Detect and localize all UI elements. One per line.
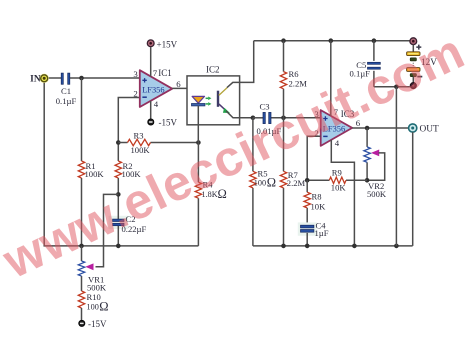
op-amp U IC1 body <box>140 70 172 107</box>
svg-text:Ω: Ω <box>267 176 276 190</box>
svg-text:+15V: +15V <box>157 39 178 49</box>
node rail pin4 <box>352 244 357 249</box>
wire IC1 pin 7 to +15V <box>150 47 152 76</box>
svg-text:-15V: -15V <box>88 319 107 329</box>
potentiometer VR1 500K <box>81 246 83 261</box>
node rail battery minus <box>394 244 399 249</box>
svg-text:100: 100 <box>87 303 99 312</box>
terminal +15V <box>147 40 154 47</box>
wire VR1 wiper to node B <box>96 194 119 266</box>
wire battery minus down to rail <box>395 87 397 246</box>
wire IN down to left common rail <box>44 83 198 246</box>
svg-text:IN: IN <box>30 75 41 85</box>
wire IC1 pin 4 to -15V <box>150 101 152 119</box>
resistor R4 1.8K <box>197 143 199 183</box>
node top rail R6 <box>281 38 286 43</box>
wire LED cathode down to R3/R4 node <box>197 106 199 143</box>
node input junction <box>79 76 84 81</box>
wire output stage common rail <box>253 245 413 247</box>
svg-text:4: 4 <box>335 138 340 148</box>
resistor R3 100K feedback <box>118 142 127 144</box>
svg-text:3: 3 <box>133 69 138 79</box>
svg-text:R9: R9 <box>332 167 342 177</box>
svg-text:500K: 500K <box>367 189 387 199</box>
svg-text:2.2M: 2.2M <box>287 178 306 188</box>
node emitter junction <box>251 116 256 121</box>
wire VR2 wiper loop <box>367 153 385 180</box>
node R3/R2 junction <box>116 140 121 145</box>
node top rail IC3 pin7 <box>329 38 334 43</box>
node R3 right junction <box>196 140 201 145</box>
node pin6/VR2 <box>365 126 370 131</box>
capacitor C2 0.22uF <box>109 216 129 229</box>
wire IC3 pin 6 to OUT <box>352 127 408 129</box>
optocoupler IC2 box <box>187 76 240 125</box>
svg-text:IC1: IC1 <box>158 68 172 78</box>
wire IC1 pin 6 to optocoupler LED <box>172 88 198 96</box>
wire phototransistor collector to top rail <box>227 41 254 88</box>
node top rail C5 <box>372 38 377 43</box>
svg-text:-15V: -15V <box>159 118 178 128</box>
resistor R6 2.2M <box>283 41 285 72</box>
op-amp U IC3 body <box>321 110 353 146</box>
svg-text:100K: 100K <box>85 169 105 179</box>
terminal IN <box>40 74 49 83</box>
svg-text:R3: R3 <box>134 131 144 141</box>
wire +12V top rail <box>254 40 410 42</box>
svg-text:100: 100 <box>254 179 266 188</box>
svg-text:4: 4 <box>154 99 159 109</box>
svg-text:100K: 100K <box>131 145 151 155</box>
node C3/R6/R7 junction <box>281 116 286 121</box>
svg-text:2.2M: 2.2M <box>289 78 308 88</box>
resistor R5 100 ohm <box>252 118 254 172</box>
wire OUT down to rail <box>412 132 414 246</box>
node R9/R8/pin2 junction <box>305 178 310 183</box>
svg-text:6: 6 <box>176 79 181 89</box>
resistor R9 10K <box>307 179 329 181</box>
phototransistor inside IC2 <box>217 91 219 107</box>
svg-text:7: 7 <box>153 68 158 78</box>
svg-text:1µF: 1µF <box>315 228 329 238</box>
terminal -15V IC1 <box>148 119 154 125</box>
svg-text:0.1µF: 0.1µF <box>56 96 77 106</box>
svg-text:2: 2 <box>133 89 137 99</box>
resistor R1 100K <box>81 78 83 161</box>
wire IC1 pin 2 to node B <box>118 98 140 143</box>
wire IC3 pin 7 to top rail <box>330 41 332 116</box>
svg-text:R8: R8 <box>312 191 322 201</box>
svg-text:Ω: Ω <box>99 300 108 314</box>
LED inside IC2 <box>192 96 204 103</box>
resistor R2 100K <box>117 143 119 162</box>
terminal -15V bottom <box>79 320 85 326</box>
svg-text:IC2: IC2 <box>206 64 220 74</box>
optocoupler light arrows <box>206 97 209 99</box>
wire IC3 pin 4 to ground rail <box>331 140 354 246</box>
svg-text:LF356: LF356 <box>142 86 164 95</box>
capacitor C4 1uF <box>298 222 317 235</box>
wire IN signal to IC1 pin 3 <box>49 77 63 79</box>
capacitor C3 0.01uF <box>253 117 263 119</box>
node rail C4 <box>305 244 310 249</box>
node C2 top junction <box>116 192 121 197</box>
svg-text:C1: C1 <box>61 86 71 96</box>
node rail R7 <box>281 244 286 249</box>
node rail C2 <box>116 244 121 249</box>
wire battery minus to C5 and rail <box>374 86 410 88</box>
node VR2/R9 junction <box>365 178 370 183</box>
svg-text:10K: 10K <box>331 183 347 193</box>
node rail R1/VR1 <box>79 244 84 249</box>
node battery minus branch <box>394 85 399 90</box>
resistor R7 2.2M <box>283 118 285 172</box>
battery B1 12V <box>410 38 417 45</box>
svg-text:10K: 10K <box>311 202 327 212</box>
svg-text:OUT: OUT <box>420 124 440 134</box>
resistor R8 10K <box>306 180 308 192</box>
terminal OUT <box>409 124 417 132</box>
capacitor C1 <box>61 73 63 84</box>
resistor R10 100 ohm <box>78 291 84 308</box>
wire phototransistor emitter to node E <box>226 111 253 118</box>
wire IC3 pin 2 to feedback node <box>307 136 321 180</box>
capacitor C5 0.1uF <box>373 41 375 61</box>
svg-text:500K: 500K <box>87 282 107 292</box>
potentiometer VR2 500K <box>366 128 368 147</box>
